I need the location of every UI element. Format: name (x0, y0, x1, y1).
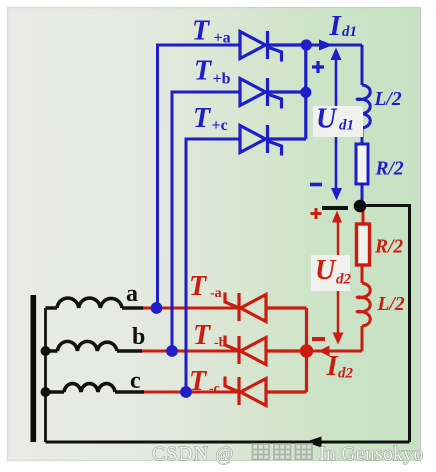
svg-text:T: T (193, 320, 212, 351)
red cathode bus (305, 308, 308, 392)
neutral wire (44, 308, 47, 442)
winding c (46, 384, 145, 392)
blue minus sign (310, 183, 322, 187)
Ud1 label box (313, 106, 363, 137)
svg-text:In Gensokyo: In Gensokyo (319, 444, 424, 465)
winding b (46, 341, 143, 351)
junction dot phase b (166, 345, 178, 357)
blue branch wire (361, 128, 364, 144)
Ud2 arrow down head (333, 333, 344, 345)
svg-text:-a: -a (210, 286, 222, 301)
phase a red wire (143, 307, 239, 310)
svg-text:T: T (193, 103, 212, 134)
junction dot bus top (301, 39, 312, 50)
Id2 arrow (319, 346, 330, 357)
Ud1 arrow shaft (335, 52, 338, 196)
svg-text:d1: d1 (342, 24, 357, 40)
thyristor T-b (225, 336, 307, 365)
svg-text:b: b (132, 324, 145, 350)
Ud2 arrow shaft (337, 222, 339, 334)
svg-text:I: I (329, 10, 343, 42)
red branch wire (361, 265, 364, 283)
junction dot phase a (151, 302, 163, 314)
junction node dot (354, 200, 367, 213)
svg-text:R/2: R/2 (374, 237, 403, 258)
bottom wire arrow (305, 437, 322, 448)
junction dot bus b (300, 87, 311, 98)
blue wire to node (361, 184, 364, 202)
svg-text:d2: d2 (336, 272, 352, 288)
thyristor T+b (240, 78, 306, 109)
thyristor T+c (240, 125, 306, 156)
thyristor T+a (240, 31, 306, 62)
resistor R/2 upper (356, 144, 368, 184)
svg-text:U: U (315, 255, 337, 286)
Ud2 label box (311, 255, 350, 291)
red branch vertical lower (361, 326, 364, 351)
Id1 arrow (319, 40, 333, 51)
winding a (46, 298, 144, 308)
top output wire (306, 44, 362, 47)
svg-text:L/2: L/2 (374, 89, 402, 110)
junction dot phase c (180, 386, 192, 398)
svg-text:U: U (316, 104, 338, 135)
wire node to red branch (306, 350, 362, 353)
thyristor T-c (225, 377, 307, 406)
red wire to node (362, 210, 365, 224)
bottom return wire (46, 441, 410, 444)
inductor L/2 lower (357, 283, 370, 326)
midpoint tap bar (322, 206, 348, 210)
junction neutral-c (41, 387, 51, 397)
feed wire B (172, 92, 240, 351)
watermark (152, 444, 424, 465)
red minus sign (312, 337, 325, 341)
svg-text:T: T (189, 271, 208, 302)
svg-text:CSDN @: CSDN @ (152, 444, 235, 465)
blue plus sign (312, 61, 324, 73)
svg-text:+c: +c (212, 117, 228, 134)
svg-text:T: T (192, 16, 211, 47)
svg-text:-b: -b (214, 336, 227, 351)
feed wire C (186, 139, 240, 392)
thyristor T-a (225, 293, 307, 322)
Ud1 arrow up head (331, 48, 342, 61)
right return wire (366, 206, 410, 443)
svg-text:+a: +a (214, 30, 231, 47)
phase c red wire (144, 391, 239, 394)
inductor L/2 upper (357, 85, 370, 128)
svg-text:a: a (126, 281, 138, 307)
svg-text:T: T (194, 56, 213, 87)
Ud1 arrow down head (331, 188, 342, 201)
svg-text:d1: d1 (339, 118, 354, 134)
svg-text:c: c (130, 368, 141, 394)
feed wire A (158, 45, 241, 308)
blue cathode bus (304, 45, 307, 139)
svg-text:L/2: L/2 (377, 294, 405, 315)
transformer primary bar (31, 295, 37, 442)
svg-text:T: T (189, 366, 208, 397)
red plus sign (311, 208, 322, 219)
svg-text:+b: +b (213, 71, 231, 88)
phase b red wire (142, 350, 239, 353)
junction neutral-b (41, 346, 51, 356)
Ud2 arrow up head (332, 211, 342, 223)
junction dot red bus (300, 344, 313, 357)
svg-text:-c: -c (209, 382, 220, 397)
blue branch vertical (361, 45, 364, 85)
svg-text:R/2: R/2 (375, 159, 404, 180)
svg-text:d2: d2 (338, 366, 354, 382)
resistor R/2 lower (357, 224, 370, 265)
